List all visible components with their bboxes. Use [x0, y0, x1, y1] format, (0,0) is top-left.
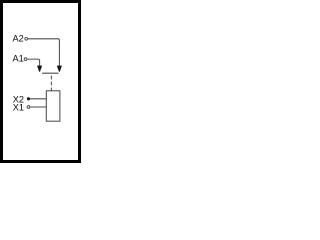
terminal A1 — [24, 58, 27, 61]
wire A2 — [28, 39, 60, 67]
mechanical coupling bar — [42, 72, 58, 74]
svg-text:X1: X1 — [13, 103, 24, 113]
wire X1 — [30, 106, 46, 108]
arrow on A1 wire — [37, 66, 42, 72]
device box — [46, 91, 60, 121]
svg-text:A2: A2 — [13, 33, 24, 43]
terminal X2 (junction dot) — [27, 97, 30, 100]
wire A1 — [27, 59, 39, 67]
terminal X1 — [27, 106, 30, 109]
wire X2 — [30, 98, 46, 100]
dashed actuator link — [50, 76, 52, 91]
svg-text:A1: A1 — [13, 54, 24, 64]
terminal A2 — [25, 37, 28, 40]
arrow on A2 wire — [57, 66, 62, 72]
